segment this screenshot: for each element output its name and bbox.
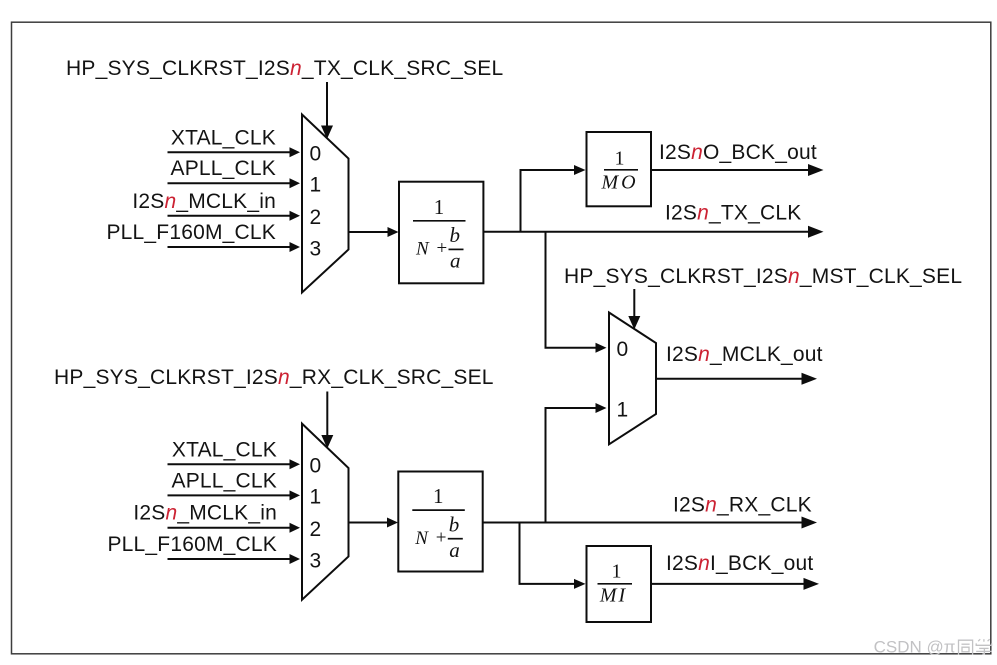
wire TX main line to I2Sn_TX_CLK (483, 226, 823, 238)
wire M2 output to I2Sn_MCLK_out (656, 373, 817, 385)
wire branch down from TX line to mux M2 pin 0 (546, 232, 607, 353)
svg-text:1: 1 (310, 174, 322, 197)
wire XTAL_CLK to M1 pin 0 (168, 147, 301, 157)
svg-text:0: 0 (310, 455, 322, 478)
wire U4 output to I2SnI_BCK_out (651, 578, 819, 590)
svg-text:HP_SYS_CLKRST_I2Sn_TX_CLK_SRC_: HP_SYS_CLKRST_I2Sn_TX_CLK_SRC_SEL (66, 57, 503, 80)
wire RX select arrow into mux M3 (321, 392, 333, 449)
wire PLL_F160M_CLK to M1 pin 3 (168, 242, 301, 252)
wire branch up from RX line to mux M2 pin 1 (546, 403, 607, 523)
svg-text:1: 1 (433, 484, 444, 508)
svg-text:1: 1 (617, 398, 629, 421)
svg-text:3: 3 (310, 549, 322, 572)
svg-text:I2Sn_MCLK_in: I2Sn_MCLK_in (133, 502, 277, 525)
svg-text:MO: MO (600, 172, 638, 194)
svg-text:MI: MI (599, 584, 627, 606)
svg-text:HP_SYS_CLKRST_I2Sn_MST_CLK_SEL: HP_SYS_CLKRST_I2Sn_MST_CLK_SEL (564, 265, 962, 288)
wire M1 output to divider U1 (349, 227, 399, 237)
svg-text:b: b (449, 513, 460, 537)
svg-text:b: b (450, 223, 461, 247)
svg-text:1: 1 (612, 561, 622, 583)
svg-text:I2SnI_BCK_out: I2SnI_BCK_out (666, 552, 813, 575)
wire TX select arrow into mux M1 (321, 82, 333, 139)
svg-text:I2Sn_TX_CLK: I2Sn_TX_CLK (665, 201, 801, 224)
svg-text:3: 3 (310, 237, 322, 260)
svg-text:1: 1 (615, 147, 625, 169)
svg-text:APLL_CLK: APLL_CLK (171, 469, 277, 492)
svg-text:I2Sn_RX_CLK: I2Sn_RX_CLK (673, 493, 812, 516)
svg-text:I2Sn_MCLK_out: I2Sn_MCLK_out (666, 343, 823, 366)
svg-text:0: 0 (310, 143, 322, 166)
svg-text:PLL_F160M_CLK: PLL_F160M_CLK (106, 221, 276, 244)
svg-text:1: 1 (434, 195, 445, 219)
svg-text:XTAL_CLK: XTAL_CLK (172, 438, 277, 461)
svg-text:1: 1 (310, 486, 322, 509)
svg-text:a: a (450, 249, 461, 273)
svg-text:XTAL_CLK: XTAL_CLK (171, 126, 276, 149)
mux M2 (master clock select) (609, 313, 656, 445)
wire APLL_CLK to M1 pin 1 (168, 178, 301, 188)
wire branch up to divider U2 (1/MO) (521, 165, 586, 232)
wire M3 output to divider U3 (349, 518, 399, 528)
mux M1 (TX clock source select) (302, 115, 349, 293)
svg-text:PLL_F160M_CLK: PLL_F160M_CLK (107, 533, 277, 556)
svg-text:a: a (449, 538, 460, 562)
svg-text:2: 2 (310, 206, 322, 229)
wire U2 output to I2SnO_BCK_out (651, 164, 824, 176)
watermark CSDN (874, 638, 992, 657)
svg-text:CSDN @π: CSDN @π (874, 638, 956, 657)
wire I2Sn_MCLK_in to M3 pin 2 (168, 523, 301, 533)
divider U2 value 1/MO (587, 132, 652, 206)
svg-text:N: N (414, 528, 429, 549)
svg-text:+: + (436, 527, 447, 548)
wire XTAL_CLK to M3 pin 0 (168, 459, 301, 469)
divider U1 value 1/(N+b/a) TX (399, 182, 483, 284)
wire APLL_CLK to M3 pin 1 (168, 490, 301, 500)
svg-text:2: 2 (310, 518, 322, 541)
svg-text:0: 0 (617, 338, 629, 361)
svg-text:HP_SYS_CLKRST_I2Sn_RX_CLK_SRC_: HP_SYS_CLKRST_I2Sn_RX_CLK_SRC_SEL (54, 366, 494, 389)
divider U4 value 1/MI (587, 546, 652, 622)
svg-text:APLL_CLK: APLL_CLK (170, 157, 276, 180)
svg-text:I2SnO_BCK_out: I2SnO_BCK_out (659, 141, 817, 164)
wire I2Sn_MCLK_in to M1 pin 2 (168, 211, 301, 221)
svg-text:N: N (415, 239, 430, 260)
wire branch down from RX line to divider U4 (520, 523, 586, 589)
divider U3 value 1/(N+b/a) RX (398, 472, 482, 572)
mux M3 (RX clock source select) (302, 424, 349, 600)
svg-text:I2Sn_MCLK_in: I2Sn_MCLK_in (132, 190, 276, 213)
wire RX main line to I2Sn_RX_CLK (483, 517, 817, 529)
wire PLL_F160M_CLK to M3 pin 3 (168, 554, 301, 564)
wire MST select arrow into mux M2 (628, 289, 640, 330)
svg-text:+: + (437, 238, 448, 259)
